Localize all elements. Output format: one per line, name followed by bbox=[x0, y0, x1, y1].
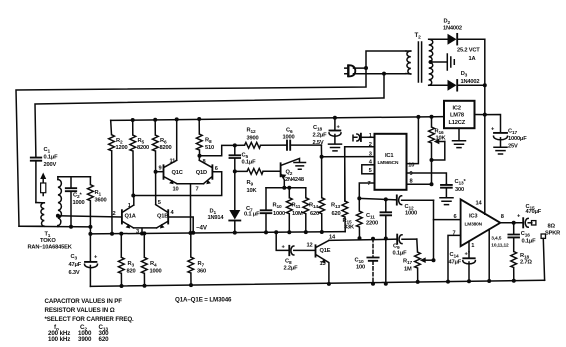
junction bbox=[512, 221, 516, 225]
svg-text:2.2μF: 2.2μF bbox=[284, 266, 299, 272]
svg-text:13: 13 bbox=[320, 261, 326, 267]
resistor R15 33K bbox=[343, 198, 363, 238]
junction bbox=[274, 230, 278, 234]
resistor R14 620 bbox=[309, 145, 325, 232]
svg-text:2.7Ω: 2.7Ω bbox=[520, 260, 532, 266]
junction bbox=[430, 115, 434, 119]
resistor R7 360 bbox=[188, 233, 206, 285]
junction bbox=[358, 236, 362, 240]
svg-text:14: 14 bbox=[476, 201, 483, 207]
svg-text:1000: 1000 bbox=[150, 269, 162, 275]
svg-text:1: 1 bbox=[128, 203, 131, 209]
capacitor C1 0.1uF 200V bbox=[31, 147, 58, 203]
ground (C17) bbox=[494, 147, 507, 154]
resistor R12 3900 (horizontal) bbox=[235, 128, 287, 149]
junction at plug lower wire bbox=[382, 72, 386, 76]
svg-text:1N914: 1N914 bbox=[208, 215, 225, 221]
capacitor C17 1000uF 25V bbox=[485, 115, 527, 150]
resistor R5 8200 bbox=[130, 120, 149, 196]
wire: pin 7 to R15 top node bbox=[359, 183, 374, 198]
svg-text:0.1μF: 0.1μF bbox=[44, 155, 59, 161]
svg-text:8: 8 bbox=[203, 159, 206, 165]
wire: -4V bus bbox=[90, 232, 345, 234]
wire: +12V rail bbox=[111, 117, 444, 121]
svg-text:8: 8 bbox=[410, 178, 413, 184]
ground (regulator) bbox=[453, 141, 466, 148]
svg-text:RAN–10A6845EK: RAN–10A6845EK bbox=[28, 244, 73, 250]
capacitor C15 470uF (horizontal) bbox=[517, 204, 542, 227]
junction bbox=[119, 232, 123, 236]
svg-text:3900: 3900 bbox=[78, 336, 92, 343]
transistor Q1A bbox=[122, 205, 136, 229]
transformer T2 bbox=[406, 32, 446, 85]
svg-text:10: 10 bbox=[173, 187, 179, 193]
wire: R5 to Q1A collector to Q1D base bbox=[133, 172, 221, 196]
svg-text:IC1: IC1 bbox=[385, 153, 393, 159]
resistor R18 2.7ohm bbox=[511, 252, 533, 281]
T1 secondary winding bbox=[57, 177, 59, 180]
resistor R8 510 bbox=[196, 119, 214, 156]
svg-text:620: 620 bbox=[310, 211, 319, 217]
wire: Q1C collector riser to +12 rail bbox=[176, 119, 178, 160]
junction C2 bottom bbox=[69, 225, 73, 229]
junction bbox=[110, 232, 114, 236]
svg-text:1M: 1M bbox=[404, 267, 412, 273]
junction bbox=[282, 186, 286, 190]
junction bbox=[287, 230, 291, 234]
transformer T1 bbox=[28, 177, 73, 251]
svg-text:3: 3 bbox=[136, 229, 139, 235]
svg-text:5: 5 bbox=[158, 200, 161, 206]
svg-text:0.1μF: 0.1μF bbox=[242, 160, 257, 166]
wire: Q1C/Q1D shared emitter segment + riser to -4V bbox=[177, 184, 204, 233]
junction bbox=[416, 280, 420, 284]
wire: grounded pins 3,4,5,10,11,12 bbox=[488, 229, 490, 281]
wire: regulator input from rectifier bbox=[475, 114, 485, 116]
capacitor C12 1000 (horizontal) bbox=[397, 195, 434, 216]
pin 5 label (boxed) bbox=[362, 165, 375, 174]
junction bbox=[189, 283, 193, 287]
capacitor C16 0.1uF bbox=[508, 223, 536, 252]
capacitor at pin 1 bbox=[353, 134, 375, 141]
svg-text:33K: 33K bbox=[344, 225, 355, 231]
T2 primary winding bbox=[406, 50, 411, 52]
svg-text:1000μF: 1000μF bbox=[508, 136, 527, 142]
capacitor C9 0.1uF (horizontal) bbox=[393, 235, 417, 257]
wire: Q1A/Q1B shared emitter segment + pin3 drop bbox=[134, 228, 157, 234]
transistor Q2 2N4248 bbox=[281, 163, 304, 188]
junction bbox=[371, 282, 375, 286]
svg-text:1A: 1A bbox=[469, 56, 476, 62]
svg-text:1N4002: 1N4002 bbox=[461, 79, 480, 85]
wire: T1 tap to Q1A base bbox=[58, 216, 121, 217]
svg-text:2.2μF: 2.2μF bbox=[313, 133, 328, 139]
svg-text:300: 300 bbox=[455, 187, 464, 193]
T2 core bbox=[418, 42, 421, 82]
svg-text:2.5V: 2.5V bbox=[313, 140, 324, 146]
ground (C13) bbox=[440, 198, 453, 205]
tuning slug arrow for T1 bbox=[40, 173, 46, 196]
svg-text:8Ω: 8Ω bbox=[548, 224, 556, 230]
junction T1 tap bbox=[56, 214, 60, 218]
T1 primary winding bbox=[36, 202, 44, 204]
svg-text:L12CZ: L12CZ bbox=[449, 120, 466, 126]
wire: bus riser at R1 bbox=[89, 227, 91, 234]
svg-text:2N4248: 2N4248 bbox=[285, 177, 304, 183]
junction bbox=[233, 231, 237, 235]
svg-text:Q1D: Q1D bbox=[196, 170, 207, 176]
resistor R4 1000 bbox=[141, 233, 161, 285]
resistor R10 1000 bbox=[273, 188, 293, 232]
AC plug P1 bbox=[345, 65, 356, 77]
svg-text:9: 9 bbox=[410, 171, 413, 177]
svg-text:7: 7 bbox=[368, 181, 371, 187]
svg-text:100 kHz: 100 kHz bbox=[48, 336, 70, 343]
wire: Q1B collector riser bbox=[155, 203, 158, 206]
wire: pin 8 to R16 bottom bbox=[407, 183, 432, 185]
junction bbox=[320, 230, 324, 234]
svg-text:6.3V: 6.3V bbox=[69, 270, 80, 276]
wire: pin 3 to C6/R14 node bbox=[322, 156, 375, 158]
svg-text:IC2: IC2 bbox=[453, 106, 461, 112]
svg-text:−4V: −4V bbox=[196, 225, 208, 232]
wire: T1 bottom line bbox=[19, 225, 90, 228]
junction bbox=[371, 237, 375, 241]
wire: pin 2 to R13 bbox=[345, 147, 375, 201]
junction bbox=[142, 231, 146, 235]
transistor Q1D bbox=[196, 160, 213, 184]
svg-text:Q1A: Q1A bbox=[125, 214, 136, 220]
svg-text:47μF: 47μF bbox=[69, 262, 82, 268]
wire: pin 10 to +12V rail bbox=[407, 117, 419, 164]
svg-text:620: 620 bbox=[332, 211, 341, 217]
capacitor C8 2.2uF (horizontal) bbox=[276, 232, 315, 271]
svg-text:1N4002: 1N4002 bbox=[443, 26, 462, 32]
capacitor C7 0.1uF bbox=[244, 188, 271, 233]
svg-text:10K: 10K bbox=[436, 136, 447, 142]
junction bbox=[197, 117, 201, 121]
svg-text:IC3: IC3 bbox=[469, 214, 477, 220]
svg-text:3600: 3600 bbox=[95, 198, 107, 204]
speaker terminal (bottom) + wire bbox=[543, 238, 544, 280]
diode D1 1N914 bbox=[208, 171, 241, 232]
svg-text:10M: 10M bbox=[292, 211, 303, 217]
junction bbox=[191, 231, 195, 235]
resistor R2 1200 bbox=[109, 120, 128, 233]
wire: AC line A (outer loop) plug to T1 primary bottom bbox=[16, 68, 366, 226]
potentiometer R17 1M bbox=[403, 239, 434, 282]
svg-text:1000: 1000 bbox=[405, 211, 417, 217]
junction bbox=[153, 118, 157, 122]
junction bbox=[432, 258, 436, 262]
pin 8 output wire bbox=[500, 222, 523, 224]
junction bbox=[88, 232, 92, 236]
junction at plug upper wire bbox=[364, 66, 368, 70]
capacitor C18 2.2uF 2.5V bbox=[313, 118, 342, 146]
transistor Q1C bbox=[164, 160, 183, 184]
svg-text:6: 6 bbox=[454, 214, 457, 220]
junction bbox=[198, 154, 202, 158]
capacitor C13* 300 bbox=[441, 179, 466, 198]
svg-text:11: 11 bbox=[170, 159, 176, 165]
svg-text:8200: 8200 bbox=[160, 145, 172, 151]
capacitor C5 0.1uF bbox=[230, 145, 257, 171]
op-amp IC3 LM380N triangle bbox=[461, 199, 501, 246]
svg-text:25.2 VCT: 25.2 VCT bbox=[457, 48, 480, 54]
svg-text:47μF: 47μF bbox=[449, 260, 462, 266]
svg-text:8: 8 bbox=[501, 214, 504, 220]
junction bbox=[154, 170, 158, 174]
svg-text:Q1A–Q1E = LM3046: Q1A–Q1E = LM3046 bbox=[175, 297, 232, 304]
svg-text:0.1μF: 0.1μF bbox=[522, 239, 537, 245]
svg-text:RESISTOR VALUES IN Ω: RESISTOR VALUES IN Ω bbox=[45, 307, 115, 314]
junction bbox=[189, 231, 193, 235]
svg-text:Q1C: Q1C bbox=[172, 170, 183, 176]
wire: ground bus bbox=[90, 280, 544, 286]
potentiometer R16 10K bbox=[429, 117, 447, 185]
junction bbox=[233, 143, 237, 147]
wire: pin 9 to C13 bbox=[407, 173, 447, 184]
junction bbox=[333, 116, 337, 120]
junction bbox=[357, 196, 361, 200]
svg-text:1000: 1000 bbox=[283, 135, 295, 141]
wire: R9 feed node bbox=[233, 169, 237, 173]
wire: rectifier output vertical to LM380 pin 14 bbox=[484, 39, 486, 214]
junction bbox=[304, 230, 308, 234]
capacitor C14 47uF bbox=[449, 252, 476, 282]
svg-text:360: 360 bbox=[197, 269, 206, 275]
ground (Q2 emitter) bbox=[281, 158, 299, 165]
junction bbox=[429, 60, 433, 64]
junction R1 bottom / bus corner bbox=[88, 225, 92, 229]
wire: regulator ground lead bbox=[458, 128, 460, 140]
svg-text:LM78: LM78 bbox=[450, 113, 464, 119]
junction bbox=[327, 282, 331, 286]
svg-text:Q1B: Q1B bbox=[157, 214, 168, 220]
svg-text:2200: 2200 bbox=[366, 221, 378, 227]
svg-text:470μF: 470μF bbox=[526, 209, 542, 215]
svg-text:1000: 1000 bbox=[73, 200, 85, 206]
svg-text:25V: 25V bbox=[508, 144, 518, 150]
capacitor C11 2200 bbox=[366, 199, 391, 283]
junction bbox=[446, 280, 450, 284]
junction bbox=[467, 279, 471, 283]
resistor R13 620 bbox=[331, 147, 348, 232]
T2 center tap wire bbox=[431, 61, 447, 63]
capacitor C6 1000 (horizontal) bbox=[283, 128, 322, 150]
op-amp/IC box IC1 LM565CN bbox=[375, 134, 407, 190]
wire: Q1B base to -4V bus bbox=[168, 217, 193, 233]
junction bbox=[264, 230, 268, 234]
svg-text:0.1μF: 0.1μF bbox=[393, 251, 408, 257]
junction bbox=[287, 186, 291, 190]
svg-text:CAPACITOR VALUES IN PF: CAPACITOR VALUES IN PF bbox=[45, 298, 123, 305]
junction bbox=[143, 284, 147, 288]
junction bbox=[384, 197, 388, 201]
svg-text:7: 7 bbox=[196, 187, 199, 193]
wire: detector node line L1 bbox=[266, 187, 306, 189]
junction bbox=[131, 118, 135, 122]
svg-text:510: 510 bbox=[205, 145, 214, 151]
wire: Q1D collector riser to R8 bbox=[198, 156, 200, 161]
wire: C12 riser down to wiper line bbox=[433, 200, 435, 260]
svg-text:*SELECT FOR CARRIER FREQ.: *SELECT FOR CARRIER FREQ. bbox=[45, 316, 135, 323]
transistor Q1B bbox=[156, 205, 168, 229]
capacitor C2* 1000 bbox=[66, 177, 85, 227]
svg-text:620: 620 bbox=[99, 336, 110, 343]
regulator IC2 LM78L12CZ bbox=[444, 101, 475, 128]
svg-text:200V: 200V bbox=[44, 162, 57, 168]
pin 6 wire bbox=[434, 219, 461, 221]
junction bbox=[384, 237, 388, 241]
svg-text:9: 9 bbox=[159, 165, 162, 171]
svg-text:820: 820 bbox=[127, 269, 136, 275]
wire: Q1A collector riser bbox=[133, 196, 135, 205]
svg-text:1: 1 bbox=[471, 243, 474, 249]
svg-text:10,11,12: 10,11,12 bbox=[491, 243, 509, 249]
svg-text:LM380N: LM380N bbox=[465, 222, 483, 228]
transistor Q1E bbox=[316, 240, 331, 284]
junction bbox=[384, 282, 388, 286]
svg-text:100: 100 bbox=[356, 264, 365, 270]
diode D3 1N4002 bbox=[446, 71, 485, 91]
capacitor C3 47uF 6.3V bbox=[69, 234, 99, 287]
junction bbox=[140, 232, 144, 236]
capacitor C10 100 (dashed leads) bbox=[355, 239, 379, 284]
svg-text:10K: 10K bbox=[247, 188, 258, 194]
junction at regulator input bbox=[483, 113, 487, 117]
junction bbox=[430, 182, 434, 186]
svg-text:Q1E: Q1E bbox=[320, 248, 331, 254]
svg-text:3900: 3900 bbox=[247, 136, 259, 142]
svg-text:12: 12 bbox=[307, 242, 313, 248]
junction bbox=[512, 279, 516, 283]
wire: Q1E collector line to C9 bbox=[329, 239, 397, 240]
ground (center tap, rotated) bbox=[447, 54, 454, 70]
junction bbox=[131, 194, 135, 198]
svg-text:LM565CN: LM565CN bbox=[378, 160, 399, 166]
junction bbox=[430, 158, 434, 162]
speaker terminal (top) bbox=[532, 221, 536, 225]
pin 7 wire to ground bus bbox=[448, 235, 461, 281]
svg-text:1200: 1200 bbox=[116, 145, 128, 151]
diode D2 1N4002 bbox=[443, 19, 485, 45]
junction bbox=[120, 284, 124, 288]
junction bbox=[175, 117, 179, 121]
svg-text:7: 7 bbox=[453, 231, 456, 237]
ground (C18) bbox=[329, 144, 342, 151]
wire: tank top line T1 to C2/R1 bbox=[58, 176, 91, 178]
resistor R3 820 bbox=[118, 234, 135, 286]
resistor R1 3600 bbox=[88, 177, 107, 227]
wire: Q1C base from R6 bbox=[156, 171, 163, 173]
svg-text:1000: 1000 bbox=[273, 211, 285, 217]
wire: pin7 audio line to C12 bbox=[359, 198, 396, 199]
junction D3 cathode bbox=[483, 83, 487, 87]
wire: AC line B (inner) plug to C1 bbox=[35, 74, 384, 158]
resistor R6 8200 bbox=[152, 120, 171, 205]
junction bbox=[487, 279, 491, 283]
junction bbox=[320, 155, 324, 159]
svg-text:8200: 8200 bbox=[137, 145, 149, 151]
svg-text:3,4,5: 3,4,5 bbox=[491, 236, 501, 242]
svg-text:2: 2 bbox=[113, 211, 116, 217]
svg-text:5: 5 bbox=[369, 168, 372, 174]
svg-text:0.1 μF: 0.1 μF bbox=[244, 212, 260, 218]
junction bbox=[416, 115, 420, 119]
resistor R11 10M bbox=[292, 188, 309, 232]
svg-text:SPKR: SPKR bbox=[545, 231, 560, 237]
wire: plug upper prong to T2 primary top bbox=[354, 51, 407, 68]
wire: plug lower prong to T2 primary bottom bbox=[354, 73, 407, 75]
pin 1 wire bbox=[468, 241, 470, 252]
svg-text:TOKO: TOKO bbox=[40, 238, 56, 244]
wire: R8 node jog to R12 bbox=[200, 145, 235, 155]
T2 secondary winding bbox=[429, 38, 446, 40]
resistor R9 10K (horizontal) bbox=[235, 169, 280, 195]
